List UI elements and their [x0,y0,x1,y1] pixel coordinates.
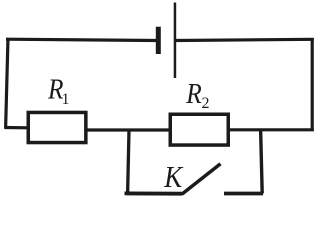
switch K blade [182,164,221,195]
svg-text:K: K [163,159,184,194]
battery negative plate (short thick bar) [156,27,161,54]
wire top-right segment [175,39,314,40]
wire switch-branch left vertical [128,130,129,194]
wire R1 to R2 [86,128,170,131]
battery positive plate (long thin line) [174,3,177,79]
wire switch-branch right vertical [261,129,263,194]
svg-text:R: R [185,79,201,110]
wire right vertical [311,38,314,131]
svg-text:2: 2 [202,95,210,112]
wire stub to R1 left [5,126,29,130]
wire left vertical [6,38,8,129]
wire R2 to right vertical [228,128,314,131]
resistor R2 [170,114,228,145]
svg-text:1: 1 [62,91,70,108]
switch K right contact [224,192,263,196]
resistor R1 [28,112,86,142]
wire top-left segment [6,39,158,40]
wire switch-branch bottom [125,191,183,195]
